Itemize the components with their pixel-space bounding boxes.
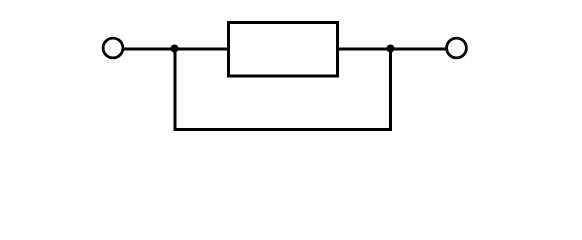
resistor R1 (box symbol) [229, 23, 338, 77]
wire node B down [389, 49, 392, 131]
node A junction dot [171, 45, 179, 53]
wire node A down [174, 49, 177, 130]
right terminal T2 [447, 38, 467, 58]
wire from resistor right pin to node B [337, 48, 391, 51]
wire from left terminal to node A [124, 48, 175, 51]
wire bottom bypass [174, 128, 393, 131]
wire from node B to right terminal [391, 48, 447, 51]
left terminal T1 [103, 38, 123, 58]
wire from node A to resistor left pin [175, 48, 228, 51]
node B junction dot [387, 45, 395, 53]
